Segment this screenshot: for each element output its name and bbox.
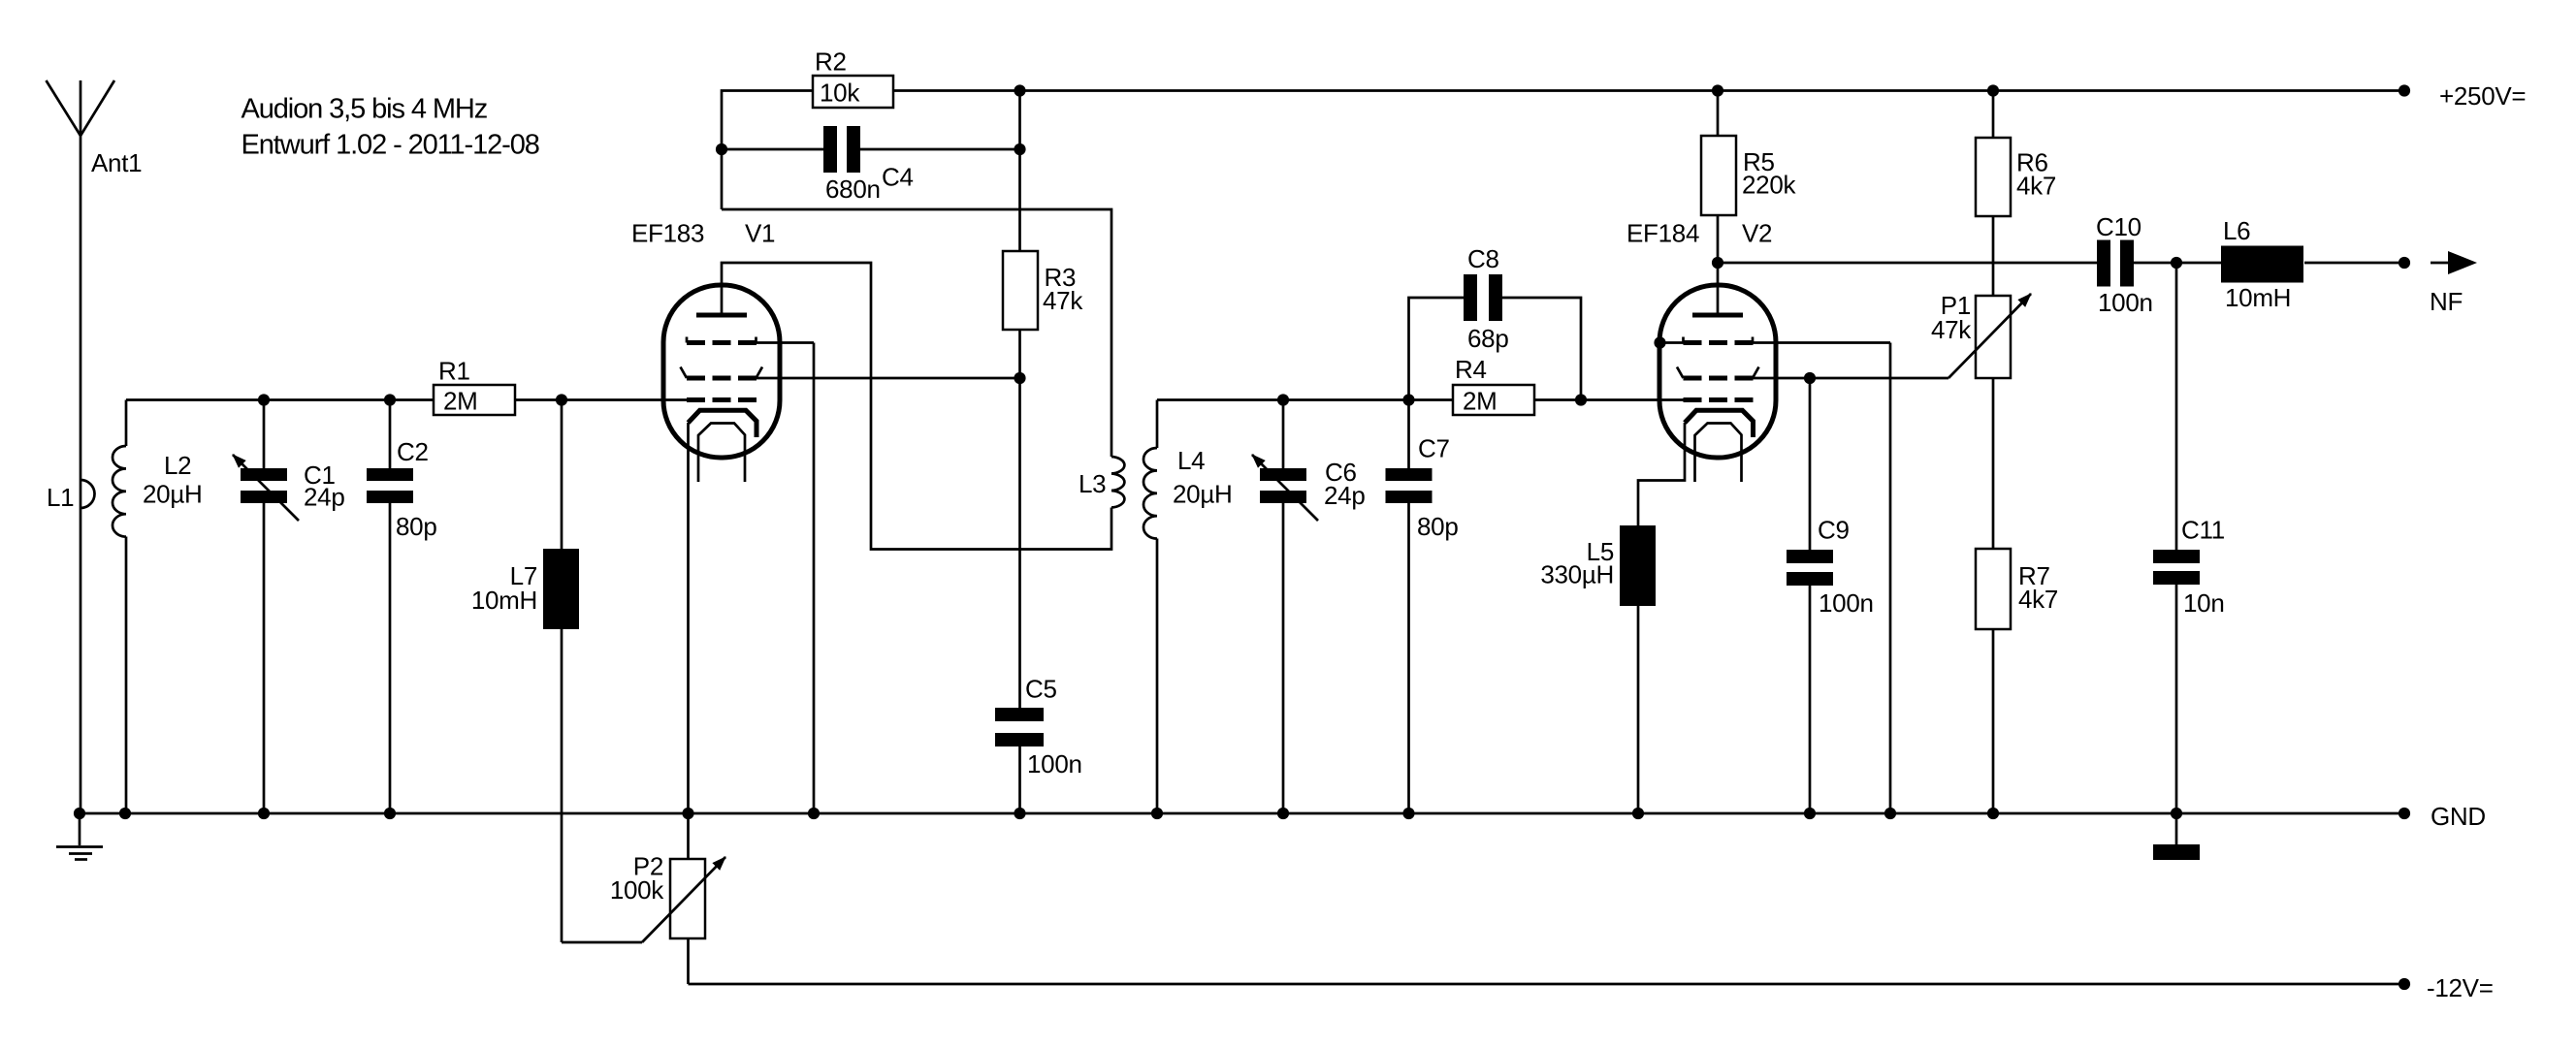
- svg-text:C9: C9: [1818, 516, 1850, 545]
- svg-text:C4: C4: [882, 163, 914, 192]
- svg-text:C7: C7: [1418, 434, 1450, 463]
- svg-text:+250V=: +250V=: [2439, 81, 2526, 111]
- junction C10 C11: [2171, 257, 2182, 269]
- inductor L5: [1540, 525, 1656, 813]
- wire V2 g3 to gnd: [1753, 343, 1890, 814]
- svg-text:NF: NF: [2430, 287, 2463, 316]
- junction C7 gnd: [1402, 808, 1414, 819]
- svg-text:47k: 47k: [1931, 315, 1972, 344]
- junction L5 gnd: [1632, 808, 1644, 819]
- V1 grid g2: [681, 367, 763, 379]
- svg-text:2M: 2M: [443, 387, 478, 416]
- inductor L4: [1143, 400, 1232, 814]
- V2 grid g1: [1684, 397, 1754, 402]
- junction V2 g3 wall: [1654, 336, 1665, 348]
- svg-text:80p: 80p: [1417, 512, 1458, 541]
- potentiometer P1: [1931, 291, 2031, 378]
- capacitor C6: [1252, 400, 1365, 814]
- inductor L6: [2221, 216, 2404, 312]
- resistor R1: [434, 357, 515, 416]
- svg-text:20µH: 20µH: [1173, 480, 1232, 509]
- V2 anode: [1692, 263, 1743, 315]
- svg-text:C5: C5: [1025, 675, 1057, 704]
- tube V2 EF184: [1626, 219, 1776, 459]
- junction rail R5: [1712, 84, 1723, 96]
- svg-text:L1: L1: [47, 483, 74, 512]
- V2 cathode: [1638, 410, 1754, 525]
- junction C11 gnd: [2171, 808, 2182, 819]
- junction C2 top: [384, 394, 396, 405]
- svg-text:C10: C10: [2096, 212, 2141, 241]
- V2 grid g3: [1660, 337, 1754, 343]
- V1 heater: [698, 424, 745, 483]
- V1 grid g1: [687, 397, 757, 402]
- capacitor C9: [1787, 378, 1874, 813]
- junction C4 left: [716, 143, 727, 155]
- junction L2 bottom: [119, 808, 131, 819]
- junction V2 anode: [1712, 257, 1723, 269]
- junction antenna gnd: [74, 808, 85, 819]
- junction L4 gnd: [1151, 808, 1163, 819]
- svg-text:100n: 100n: [2098, 288, 2153, 317]
- inductor L7: [471, 400, 642, 943]
- junction C1 top: [258, 394, 270, 405]
- wire V2 g2 to P1 wiper: [1753, 377, 1948, 380]
- antenna Ant1: [47, 80, 143, 813]
- V1 anode: [696, 313, 747, 318]
- ground: [56, 813, 103, 860]
- capacitor C4: [722, 126, 1020, 204]
- resistor R2: [722, 48, 893, 210]
- junction C6 top: [1277, 394, 1289, 405]
- junction g2 R3: [1014, 372, 1025, 384]
- junction rail R2: [1014, 84, 1025, 96]
- svg-text:24p: 24p: [304, 483, 344, 512]
- svg-text:EF183: EF183: [631, 219, 704, 248]
- svg-text:10mH: 10mH: [2225, 283, 2291, 312]
- potentiometer P2: [610, 813, 725, 984]
- wire anode V2 to C10: [1718, 262, 2097, 265]
- V2 heater: [1695, 424, 1742, 483]
- capacitor C10: [2096, 212, 2221, 317]
- node +250V label: [2399, 81, 2526, 111]
- svg-text:20µH: 20µH: [143, 480, 202, 509]
- svg-text:Ant1: Ant1: [91, 148, 142, 177]
- svg-text:GND: GND: [2431, 802, 2486, 831]
- tube V1 EF183: [631, 219, 780, 459]
- wire anode net to L3 top: [722, 209, 1111, 457]
- svg-text:24p: 24p: [1324, 481, 1365, 510]
- svg-text:680n: 680n: [825, 175, 881, 204]
- junction C7 top: [1402, 394, 1414, 405]
- svg-text:10n: 10n: [2183, 588, 2224, 618]
- junction C1 bottom: [258, 808, 270, 819]
- capacitor C2: [367, 400, 436, 814]
- svg-text:-12V=: -12V=: [2427, 973, 2494, 1002]
- junction L7 tap: [556, 394, 567, 405]
- GND rail: [80, 812, 2404, 815]
- +250V rail: [893, 89, 2404, 92]
- svg-text:100n: 100n: [1027, 749, 1082, 778]
- capacitor C8: [1409, 244, 1582, 400]
- resistor R4: [1453, 355, 1534, 416]
- junction C4 right: [1014, 143, 1025, 155]
- node GND label: [2399, 802, 2486, 831]
- V1 cathode: [689, 410, 757, 813]
- wire grid1 V2 rail: [1157, 398, 1453, 401]
- inductor L1: [47, 480, 95, 512]
- svg-text:220k: 220k: [1742, 171, 1796, 200]
- svg-text:100n: 100n: [1819, 588, 1874, 618]
- svg-text:L4: L4: [1177, 446, 1205, 475]
- svg-text:Entwurf 1.02 - 2011-12-08: Entwurf 1.02 - 2011-12-08: [241, 129, 539, 160]
- svg-text:10mH: 10mH: [471, 586, 537, 615]
- svg-text:V2: V2: [1742, 219, 1772, 248]
- svg-text:R4: R4: [1455, 355, 1487, 384]
- inductor L3: [1079, 457, 1124, 508]
- svg-text:V1: V1: [745, 219, 775, 248]
- svg-text:L3: L3: [1079, 469, 1106, 498]
- junction C9 gnd: [1804, 808, 1816, 819]
- junction C6 gnd: [1277, 808, 1289, 819]
- inductor L2: [113, 400, 202, 814]
- resistor R3: [1003, 91, 1083, 709]
- junction R7 gnd: [1987, 808, 1999, 819]
- junction V1 g3 gnd: [808, 808, 820, 819]
- svg-text:R1: R1: [438, 357, 470, 386]
- junction V2 g3 gnd: [1884, 808, 1896, 819]
- wire R4 to V2 g1: [1534, 398, 1685, 401]
- node -12V label: [2399, 973, 2494, 1002]
- svg-text:4k7: 4k7: [2018, 585, 2058, 614]
- resistor R7: [1976, 378, 2058, 813]
- svg-text:L2: L2: [164, 451, 191, 480]
- junction R4 right: [1575, 394, 1587, 405]
- svg-text:C11: C11: [2181, 516, 2225, 545]
- capacitor C1: [233, 400, 344, 814]
- C11 gnd bar: [2153, 813, 2200, 860]
- capacitor C7: [1386, 400, 1459, 814]
- svg-text:4k7: 4k7: [2016, 172, 2056, 201]
- capacitor C11: [2153, 263, 2225, 813]
- wire V1 g3 to gnd: [757, 343, 815, 814]
- V1 grid g3: [687, 337, 757, 343]
- junction V1 cathode gnd: [682, 808, 693, 819]
- wire V1 g2 to R3: [757, 377, 1020, 380]
- svg-text:Audion 3,5 bis 4 MHz: Audion 3,5 bis 4 MHz: [241, 93, 488, 124]
- wire grid1 V1 top rail: [126, 398, 434, 401]
- junction g2 C9: [1804, 372, 1816, 384]
- svg-text:100k: 100k: [610, 875, 664, 905]
- junction C2 bottom: [384, 808, 396, 819]
- resistor R5: [1701, 91, 1796, 264]
- capacitor C5: [995, 675, 1082, 814]
- svg-text:2M: 2M: [1463, 387, 1497, 416]
- wire L3 bottom to V1 anode: [722, 263, 1111, 550]
- svg-text:80p: 80p: [396, 512, 436, 541]
- svg-text:EF184: EF184: [1626, 219, 1699, 248]
- node NF output: [2399, 251, 2477, 316]
- svg-text:47k: 47k: [1043, 286, 1083, 315]
- svg-text:330µH: 330µH: [1540, 560, 1614, 589]
- junction C5 gnd: [1014, 808, 1025, 819]
- -12V rail: [689, 983, 2405, 986]
- svg-text:10k: 10k: [820, 78, 860, 107]
- svg-text:C2: C2: [397, 437, 429, 466]
- wire R1 to V1 g1: [515, 398, 689, 401]
- svg-text:C8: C8: [1467, 244, 1499, 273]
- svg-text:68p: 68p: [1467, 324, 1508, 353]
- svg-text:R2: R2: [815, 48, 847, 77]
- junction rail R6: [1987, 84, 1999, 96]
- svg-text:L6: L6: [2223, 216, 2250, 245]
- resistor R6: [1976, 91, 2056, 297]
- V2 grid g2: [1677, 367, 1759, 379]
